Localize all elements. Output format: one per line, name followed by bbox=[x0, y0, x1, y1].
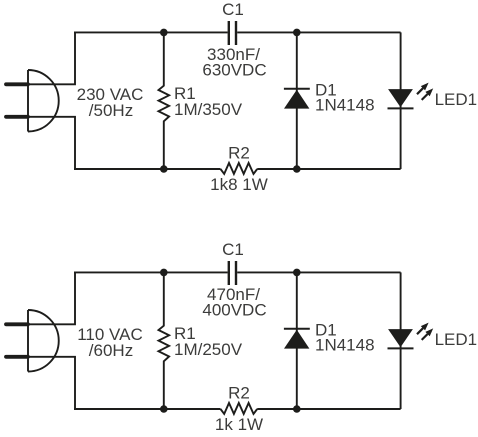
junction dot: D1 bottom node (top circuit) bbox=[293, 165, 301, 173]
junction dot: D1 bottom node (bottom circuit) bbox=[293, 405, 301, 413]
svg-text:630VDC: 630VDC bbox=[202, 61, 266, 80]
LED LED1 (top circuit) bbox=[388, 32, 414, 169]
svg-text:1k 1W: 1k 1W bbox=[215, 415, 263, 434]
LED1 light emission arrows (top circuit) bbox=[417, 83, 433, 100]
svg-text:/60Hz: /60Hz bbox=[89, 341, 133, 360]
svg-text:LED1: LED1 bbox=[435, 90, 478, 109]
wire: top rail left segment to C1 (top circuit) bbox=[74, 31, 228, 33]
AC mains plug (top circuit) bbox=[6, 70, 59, 132]
diode D1 (top circuit) bbox=[284, 32, 310, 169]
LED1 light emission arrows (bottom circuit) bbox=[417, 323, 433, 340]
svg-text:1k8 1W: 1k8 1W bbox=[210, 175, 268, 194]
junction dot: D1 top node (top circuit) bbox=[293, 29, 301, 37]
wire: bottom rail right segment from R2 to LED branch (bottom circuit) bbox=[257, 408, 400, 410]
capacitor C1 (top circuit) bbox=[229, 21, 236, 45]
junction dot: D1 top node (bottom circuit) bbox=[293, 269, 301, 277]
wire: bottom rail right segment from R2 to LED branch (top circuit) bbox=[257, 168, 400, 170]
svg-text:400VDC: 400VDC bbox=[202, 301, 266, 320]
capacitor C1 (bottom circuit) bbox=[229, 261, 236, 285]
resistor R2 (top circuit) bbox=[221, 163, 258, 174]
resistor R1 (top circuit) bbox=[159, 32, 170, 169]
wire: top rail right segment from C1 to LED branch (top circuit) bbox=[237, 31, 400, 33]
svg-text:1M/250V: 1M/250V bbox=[174, 340, 243, 359]
svg-text:1N4148: 1N4148 bbox=[315, 96, 375, 115]
svg-text:LED1: LED1 bbox=[435, 330, 478, 349]
resistor R2 (bottom circuit) bbox=[221, 403, 258, 414]
diode D1 (bottom circuit) bbox=[284, 272, 310, 409]
LED LED1 (bottom circuit) bbox=[388, 272, 414, 409]
wire: bottom rail left segment to R2 (top circuit) bbox=[74, 168, 221, 170]
wire: top rail left segment to C1 (bottom circuit) bbox=[74, 271, 228, 273]
wire: top rail right segment from C1 to LED branch (bottom circuit) bbox=[237, 271, 400, 273]
svg-text:1M/350V: 1M/350V bbox=[174, 100, 243, 119]
junction dot: R1 bottom node (bottom circuit) bbox=[160, 405, 168, 413]
wire: plug top terminal to top-left corner of bottom circuit bbox=[28, 272, 75, 324]
junction dot: R1 top node (top circuit) bbox=[160, 29, 168, 37]
junction dot: R1 bottom node (top circuit) bbox=[160, 165, 168, 173]
svg-text:R2: R2 bbox=[228, 384, 250, 403]
svg-text:1N4148: 1N4148 bbox=[315, 336, 375, 355]
svg-text:C1: C1 bbox=[222, 0, 244, 19]
resistor R1 (bottom circuit) bbox=[159, 272, 170, 409]
junction dot: R1 top node (bottom circuit) bbox=[160, 269, 168, 277]
svg-text:C1: C1 bbox=[222, 240, 244, 259]
wire: plug top terminal to top-left corner of top circuit bbox=[28, 32, 75, 84]
wire: plug bottom terminal down to bottom rail (top circuit) bbox=[28, 117, 75, 169]
svg-text:/50Hz: /50Hz bbox=[89, 101, 133, 120]
wire: bottom rail left segment to R2 (bottom circuit) bbox=[74, 408, 221, 410]
wire: plug bottom terminal down to bottom rail (bottom circuit) bbox=[28, 357, 75, 409]
svg-text:R2: R2 bbox=[228, 144, 250, 163]
AC mains plug (bottom circuit) bbox=[6, 310, 59, 372]
